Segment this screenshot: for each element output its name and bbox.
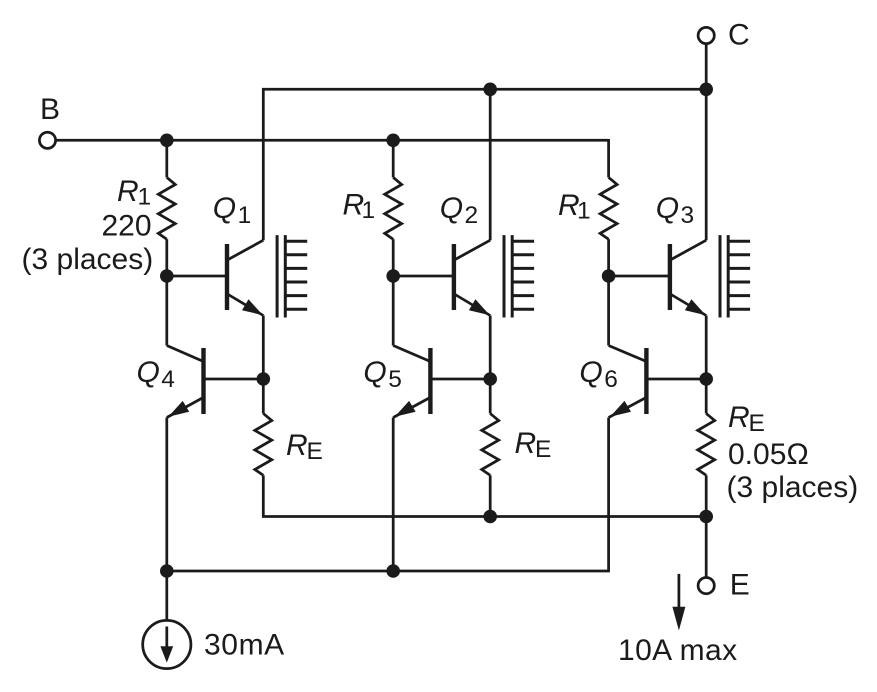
node C terminal [698,27,714,43]
resistor RE (2) [482,379,499,517]
multiple-emitter comb symbol beside Q1 [277,235,307,317]
svg-text:3: 3 [681,202,695,229]
junction: R1 (1) on B rail [160,134,174,148]
resistor R1 (1) [158,140,175,276]
wire: RE rail [262,515,706,518]
svg-text:Q: Q [440,192,463,225]
wire: Q5 collector up to base node of Q2 [392,276,395,346]
wire: Q6 collector up to base node of Q3 [607,276,610,346]
svg-text:Q: Q [137,356,160,389]
wire: E lead from RE rail to E terminal [705,517,708,578]
svg-text:R: R [286,429,308,462]
svg-text:(3 places): (3 places) [22,243,154,276]
svg-text:(3 places): (3 places) [727,471,859,504]
wire: collector rail (top) with Q1 collector riser [263,89,706,240]
current source I1 30mA [143,620,191,668]
transistor Q1 (NPN) [225,240,263,315]
svg-text:6: 6 [604,366,618,393]
junction: R1/Q3 base/Q6 collector node [602,269,616,283]
wire: base of Q4 [205,378,263,381]
multiple-emitter comb symbol beside Q2 [504,235,534,317]
wire: base of Q1 [167,275,226,278]
svg-text:2: 2 [465,202,479,229]
current direction arrow 10A max [672,574,685,631]
svg-text:Q: Q [363,356,386,389]
svg-text:E: E [307,438,323,465]
svg-text:Q: Q [656,192,679,225]
resistor R1 (2) [385,140,402,276]
svg-text:0.05Ω: 0.05Ω [728,438,809,471]
junction: Q2 collector on top rail [483,83,497,97]
junction: RE (2) on RE rail [483,510,497,524]
transistor Q2 (NPN) [452,240,491,315]
svg-text:220: 220 [102,209,152,242]
transistor Q5 (mirrored) [393,346,432,418]
node E terminal [698,578,714,594]
svg-text:1: 1 [138,184,152,211]
transistor Q3 (NPN) [668,240,707,315]
wire: C terminal to collector rail [705,44,708,90]
junction: R1 (2) on B rail [386,134,400,148]
wire: base of Q5 [432,378,490,381]
resistor RE (3) [698,379,715,517]
wire: base of Q2 [393,275,452,278]
wire: Q3 collector riser to top rail [705,89,708,240]
wire: Q6 emitter down to bottom rail [607,418,610,572]
wire: B rail [56,139,609,142]
svg-text:Q: Q [213,192,236,225]
junction: R1/Q2 base/Q5 collector node [386,269,400,283]
wire: Q4 collector up to base node of Q1 [165,276,168,346]
svg-text:Q: Q [579,356,602,389]
junction: Q1 emitter / Q4 base / RE node [257,372,271,386]
wire: Q5 emitter down to bottom rail [392,418,395,572]
svg-text:1: 1 [238,202,252,229]
wire: Q2 collector riser to top rail [489,89,492,240]
svg-text:C: C [728,19,750,52]
node B terminal [39,132,55,148]
wire: base of Q3 [609,275,669,278]
svg-text:R: R [728,401,750,434]
junction: Q5 emitter on bottom rail [386,564,400,578]
svg-text:1: 1 [362,197,376,224]
wire: B rail corner down to R1 (3) [607,139,610,177]
junction: RE (3) / E lead on RE rail [699,510,713,524]
svg-text:B: B [40,93,60,126]
wire: Q2 emitter down to Q5 base node [489,316,492,380]
junction: Q3 collector / C lead on top rail [699,83,713,97]
junction: R1/Q1 base/Q4 collector node [160,269,174,283]
wire: bottom rail (current source bus) [167,570,610,573]
svg-text:R: R [117,175,139,208]
resistor RE (1) [255,379,272,517]
svg-text:10A max: 10A max [618,634,738,667]
svg-text:5: 5 [388,366,402,393]
resistor R1 (3) [600,177,617,276]
junction: Q4 emitter / current source [160,564,174,578]
svg-text:1: 1 [577,198,591,225]
svg-text:E: E [535,436,551,463]
svg-text:4: 4 [161,366,175,393]
svg-text:E: E [749,410,765,437]
svg-text:E: E [730,569,750,602]
wire: bottom rail to current source I1 [165,571,168,621]
junction: Q2 emitter / Q5 base / RE node [483,372,497,386]
wire: Q1 emitter down to Q4 base node [262,316,265,380]
junction: Q3 emitter / Q6 base / RE node [699,372,713,386]
wire: Q3 emitter down to Q6 base node [705,316,708,380]
wire: base of Q6 [648,378,706,381]
svg-text:R: R [515,427,537,460]
multiple-emitter comb symbol beside Q3 [720,235,750,317]
svg-text:30mA: 30mA [204,629,285,662]
transistor Q6 (mirrored) [609,346,649,418]
wire: Q4 emitter down to bottom rail [165,418,168,572]
transistor Q4 (mirrored) [167,346,206,418]
